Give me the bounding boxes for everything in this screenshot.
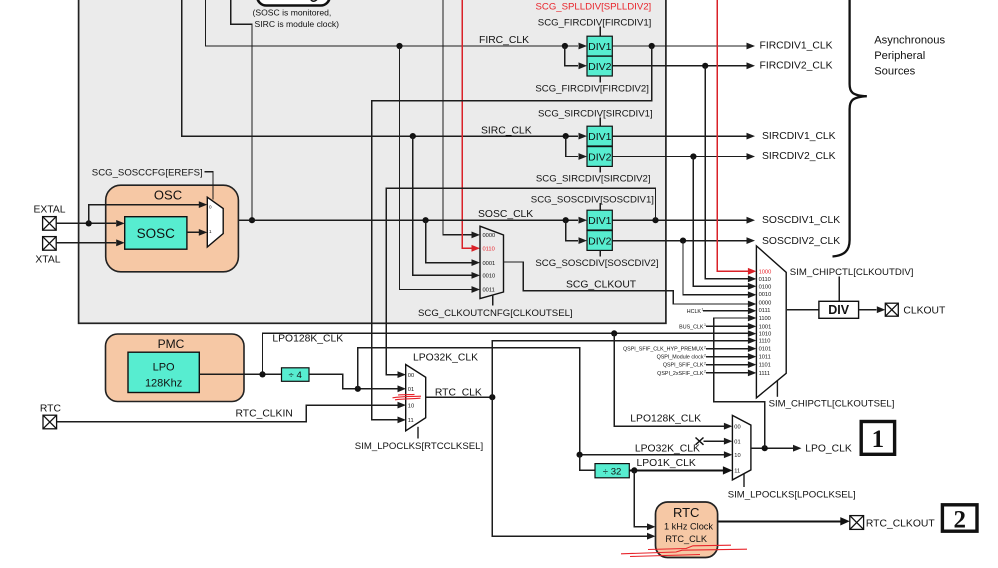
- wire RTC_CLKIN to RTC mux input 10: [57, 405, 398, 422]
- svg-text:RTC: RTC: [673, 505, 699, 520]
- RTC block: [656, 502, 718, 558]
- node: SIRC input branch to DIV2: [563, 133, 569, 139]
- wire SOSC_CLK row from OSC mux output: [223, 219, 578, 221]
- svg-text:2: 2: [953, 507, 966, 534]
- select line into DIV: [838, 277, 840, 302]
- select stub of SIM mux: [776, 381, 778, 397]
- svg-text:SCG_SIRCDIV[SIRCDIV1]: SCG_SIRCDIV[SIRCDIV1]: [538, 108, 653, 119]
- node LPO128K branch: [259, 371, 265, 377]
- LPO 128Khz block: [128, 352, 199, 392]
- CLKOUT pad: [885, 303, 898, 316]
- RTC_CLKOUT pad: [850, 516, 864, 530]
- wire RTC_CLK down to RTC block: [492, 397, 647, 536]
- svg-text:2: 2: [704, 345, 706, 349]
- svg-text:SCG_SOSCDIV[SOSCDIV1]: SCG_SOSCDIV[SOSCDIV1]: [531, 194, 654, 205]
- node LPO1K branch to RTC: [631, 467, 637, 473]
- svg-text:SIM_CHIPCTL[CLKOUTDIV]: SIM_CHIPCTL[CLKOUTDIV]: [790, 267, 914, 278]
- svg-text:LPO: LPO: [153, 362, 175, 374]
- svg-text:SIRCDIV2_CLK: SIRCDIV2_CLK: [762, 151, 836, 162]
- svg-text:0010: 0010: [759, 292, 772, 298]
- select stub of RTC mux: [417, 427, 419, 439]
- node LPO32K branch: [355, 386, 361, 392]
- numbered note box 1: [861, 422, 894, 455]
- node LPO_CLK loopback: [762, 445, 768, 451]
- divider SIRC DIV1: [587, 126, 612, 146]
- svg-text:10: 10: [408, 403, 414, 409]
- svg-text:1: 1: [209, 229, 212, 234]
- wire SIRCDIV2_CLK output: [612, 156, 746, 158]
- divider SOSC DIV2: [587, 231, 612, 251]
- SCG module block (large gray region): [79, 0, 666, 323]
- wire EXTAL to SOSC: [56, 222, 116, 224]
- svg-text:0010: 0010: [483, 274, 496, 280]
- svg-text:00: 00: [734, 424, 740, 430]
- svg-text:OSC: OSC: [154, 188, 182, 203]
- svg-text:1 kHz Clock: 1 kHz Clock: [664, 521, 713, 531]
- wire LPO128K_CLK up and right to SIM mux 1010: [263, 333, 748, 374]
- svg-text:2: 2: [704, 370, 706, 374]
- red wire: SCG_SPLLDIV SPLL clock from top into SCG CLKOUT mux input 0110: [462, 0, 472, 248]
- svg-text:FIRCDIV1_CLK: FIRCDIV1_CLK: [760, 40, 833, 51]
- svg-text:SIM_LPOCLKS[RTCCLKSEL]: SIM_LPOCLKS[RTCCLKSEL]: [355, 441, 483, 452]
- select stub of SCG mux: [492, 295, 494, 306]
- svg-text:÷ 32: ÷ 32: [603, 466, 622, 477]
- svg-text:0110: 0110: [483, 247, 495, 253]
- svg-text:XTAL: XTAL: [35, 254, 60, 265]
- svg-text:128Khz: 128Khz: [145, 378, 182, 390]
- svg-text:RTC_CLKOUT: RTC_CLKOUT: [866, 519, 935, 530]
- wire LPO32K_CLK up over to divider/LPO mux: [358, 348, 724, 455]
- svg-text:01: 01: [408, 387, 414, 393]
- svg-text:0011: 0011: [483, 288, 495, 294]
- select line SIRCDIV2: [599, 166, 601, 172]
- svg-text:0: 0: [209, 204, 212, 209]
- node: FIRC input branch to DIV2: [562, 43, 568, 49]
- svg-text:SOSCDIV2_CLK: SOSCDIV2_CLK: [762, 236, 840, 247]
- svg-text:0111: 0111: [759, 308, 771, 314]
- wire SOSC output to OSC mux input 1: [187, 231, 199, 233]
- wire LPO_CLK loop to SIM mux input 1100: [714, 318, 765, 448]
- svg-text:÷ 4: ÷ 4: [289, 370, 303, 381]
- wire div4 output to RTC clock mux input 01: [309, 374, 398, 388]
- wire: FIRCDIV1 to RTC clock mux input 11: [372, 46, 652, 420]
- svg-text:01: 01: [734, 439, 740, 445]
- svg-text:BUS_CLK: BUS_CLK: [679, 325, 704, 331]
- svg-text:PMC: PMC: [158, 337, 185, 351]
- wire RTC_CLK output: [426, 396, 493, 398]
- node LPO128K drop to LPO mux input 00: [611, 330, 617, 336]
- svg-text:SCG_FIRCDIV[FIRCDIV2]: SCG_FIRCDIV[FIRCDIV2]: [535, 84, 649, 95]
- wire: FIRC_CLK feed from top: [206, 0, 579, 46]
- svg-text:RTC: RTC: [40, 403, 62, 414]
- svg-text:1101: 1101: [759, 363, 771, 369]
- svg-text:RTC_CLK: RTC_CLK: [435, 387, 482, 398]
- wire LPO1K_CLK to LPO mux input 11 (bold): [629, 469, 723, 471]
- svg-text:2: 2: [704, 361, 706, 365]
- node: SIRCDIV2 tap to SIM CLKOUT mux 0100: [690, 153, 696, 159]
- numbered note box 2: [942, 505, 977, 531]
- red scribbles under RTC block: [621, 545, 747, 556]
- svg-text:1100: 1100: [759, 316, 771, 322]
- select line SIRCDIV1: [599, 117, 601, 126]
- svg-text:0000: 0000: [483, 233, 496, 239]
- wire RTC block to RTC_CLKOUT pad (bold): [718, 520, 841, 522]
- svg-text:1: 1: [702, 308, 704, 312]
- svg-text:CLKOUT: CLKOUT: [903, 305, 946, 316]
- svg-text:1110: 1110: [759, 339, 771, 345]
- node: FIRC tap to SCG mux 0011: [396, 43, 402, 49]
- node EXTAL branch: [86, 220, 92, 226]
- svg-text:DIV2: DIV2: [588, 236, 612, 248]
- svg-text:SIRCDIV1_CLK: SIRCDIV1_CLK: [762, 131, 836, 142]
- X mark: no clock on LPO mux input 01: [696, 438, 704, 445]
- svg-text:(SOSC is monitored,: (SOSC is monitored,: [253, 8, 332, 18]
- wire SOSCDIV1_CLK output: [612, 219, 746, 221]
- wire XTAL to SOSC: [56, 242, 116, 244]
- svg-text:SOSC_CLK: SOSC_CLK: [478, 209, 533, 220]
- node: SOSC input branch to DIV2: [563, 217, 569, 223]
- node: FIRCDIV1 tap for RTC mux input 11: [649, 43, 655, 49]
- svg-text:0110: 0110: [759, 277, 771, 283]
- svg-text:DIV1: DIV1: [588, 131, 612, 143]
- wire RTC_CLK up to SIM mux input 1110: [492, 341, 748, 397]
- svg-text:QSPI_Module clock: QSPI_Module clock: [657, 355, 704, 361]
- divide-by-32 block: [595, 464, 629, 478]
- svg-text:0001: 0001: [483, 261, 496, 267]
- wire from X mark to LPO mux input 01: [704, 440, 724, 442]
- svg-text:DIV1: DIV1: [588, 41, 612, 53]
- svg-text:0100: 0100: [759, 284, 772, 290]
- svg-text:RTC_CLK: RTC_CLK: [665, 534, 708, 544]
- svg-text:SIRC is module clock): SIRC is module clock): [255, 19, 340, 29]
- svg-text:1111: 1111: [759, 371, 770, 377]
- divider SIRC DIV2: [587, 147, 612, 167]
- node RTC_CLK branch: [489, 394, 495, 400]
- divider FIRC DIV2: [587, 56, 612, 76]
- svg-text:1010: 1010: [759, 332, 772, 338]
- wire SCG_CLKOUT from mux to SIM mux input 0000: [504, 262, 748, 304]
- svg-text:SCG_CLKOUT: SCG_CLKOUT: [566, 279, 637, 290]
- select line SOSCDIV1: [599, 203, 601, 210]
- junction on SOSC_CLK row (monitor tap): [249, 217, 255, 223]
- svg-text:00: 00: [408, 373, 414, 379]
- SOSC block: [125, 217, 187, 250]
- select line FIRCDIV2: [599, 76, 601, 83]
- svg-text:DIV2: DIV2: [588, 152, 612, 164]
- svg-text:LPO128K_CLK: LPO128K_CLK: [630, 413, 701, 424]
- RTC clock mux SIM_LPOCLKS[RTCCLKSEL]: [406, 365, 426, 431]
- select line FIRCDIV1: [599, 27, 601, 37]
- wire DIV to CLKOUT pad: [859, 309, 877, 311]
- svg-text:QSPI_SFIF_CLK: QSPI_SFIF_CLK: [663, 363, 704, 369]
- svg-text:FIRCDIV2_CLK: FIRCDIV2_CLK: [760, 60, 833, 71]
- wire HCLK input: [703, 310, 748, 312]
- wire FIRCDIV2_CLK output: [612, 65, 746, 67]
- QSPI clock inputs to SIM mux: [706, 348, 748, 350]
- PMC block: [106, 334, 245, 402]
- wire LPO output: [199, 373, 281, 375]
- wire: SIRC module-clock line from monitor into SIRC_CLK row: [182, 0, 578, 136]
- svg-text:SOSCDIV1_CLK: SOSCDIV1_CLK: [762, 215, 840, 226]
- svg-text:SIRC_CLK: SIRC_CLK: [481, 125, 532, 136]
- wire SOSCDIV2_CLK output: [612, 240, 746, 242]
- svg-text:LPO32K_CLK: LPO32K_CLK: [413, 352, 478, 363]
- node: SOSCDIV1 tap to RTC clock mux input 00: [652, 217, 658, 223]
- svg-text:SCG_SOSCCFG[EREFS]: SCG_SOSCCFG[EREFS]: [92, 167, 203, 178]
- svg-text:HCLK: HCLK: [687, 309, 702, 315]
- divide-by-4 block: [282, 368, 310, 382]
- EREFS select line: [205, 172, 214, 200]
- svg-text:QSPI_2xSFIF_CLK: QSPI_2xSFIF_CLK: [657, 371, 704, 377]
- svg-text:11: 11: [734, 469, 740, 475]
- svg-text:DIV: DIV: [828, 303, 850, 317]
- svg-text:Asynchronous: Asynchronous: [874, 35, 945, 47]
- wire FIRCDIV1_CLK output: [612, 45, 746, 47]
- svg-text:1: 1: [872, 426, 885, 453]
- node LPO32K drop to div32: [577, 452, 583, 458]
- brace: asynchronous peripheral sources: [833, 0, 867, 257]
- svg-text:SOSC: SOSC: [137, 226, 176, 241]
- red scribble over RTC mux input 01: [393, 394, 422, 399]
- wire: SOSC monitor tap (jog) down to SOSC_CLK row: [231, 0, 252, 220]
- svg-text:LPO128K_CLK: LPO128K_CLK: [272, 334, 343, 345]
- red wire: SPLL clock from top into SIM CLKOUT mux input 1000: [717, 0, 748, 271]
- SIM chip clockout mux SIM_CHIPCTL[CLKOUTSEL]: [756, 246, 786, 398]
- svg-text:FIRC_CLK: FIRC_CLK: [479, 35, 529, 46]
- wire BUS_CLK input: [706, 325, 748, 327]
- wire LPO_CLK output: [751, 447, 793, 449]
- LPO clock mux SIM_LPOCLKS[LPOCLKSEL]: [732, 415, 751, 480]
- svg-text:SCG_SPLLDIV[SPLLDIV2]: SCG_SPLLDIV[SPLLDIV2]: [536, 2, 652, 13]
- clock monitor unit box (cut off at top edge): [257, 0, 330, 6]
- node: SOSCDIV2 tap to SIM CLKOUT mux 0010: [680, 238, 686, 244]
- wire: SLOW/other clock from top into SCG CLKOUT mux input 0000: [443, 0, 472, 235]
- svg-text:SIM_LPOCLKS[LPOCLKSEL]: SIM_LPOCLKS[LPOCLKSEL]: [728, 490, 856, 501]
- svg-text:1001: 1001: [759, 324, 772, 330]
- svg-text:SCG_SOSCDIV[SOSCDIV2]: SCG_SOSCDIV[SOSCDIV2]: [535, 258, 658, 269]
- svg-text:11: 11: [408, 418, 414, 424]
- svg-text:10: 10: [734, 453, 740, 459]
- SCG clockout mux SCG_CLKOUTCNFG: [480, 226, 504, 298]
- divider DIV (CLKOUT): [819, 301, 859, 318]
- svg-text:SCG_FIRCDIV[FIRCDIV1]: SCG_FIRCDIV[FIRCDIV1]: [538, 18, 652, 29]
- wire SIRCDIV1_CLK output: [612, 135, 746, 137]
- svg-text:2: 2: [704, 353, 706, 357]
- svg-text:0101: 0101: [759, 347, 772, 353]
- svg-text:LPO32K_CLK: LPO32K_CLK: [635, 443, 700, 454]
- select stub of LPO mux: [743, 474, 745, 488]
- svg-text:Sources: Sources: [874, 66, 915, 78]
- node: SOSC tap to SCG mux 0001: [423, 217, 429, 223]
- select line SOSCDIV2: [599, 250, 601, 256]
- svg-text:LPO_CLK: LPO_CLK: [805, 444, 852, 455]
- svg-text:Peripheral: Peripheral: [874, 50, 925, 62]
- wire EXTAL bypass to OSC mux input 0: [89, 205, 199, 224]
- svg-text:SIM_CHIPCTL[CLKOUTSEL]: SIM_CHIPCTL[CLKOUTSEL]: [769, 399, 895, 410]
- svg-text:SCG_CLKOUTCNFG[CLKOUTSEL]: SCG_CLKOUTCNFG[CLKOUTSEL]: [418, 308, 573, 319]
- svg-text:SCG_SIRCDIV[SIRCDIV2]: SCG_SIRCDIV[SIRCDIV2]: [536, 174, 651, 185]
- node: FIRCDIV2 tap to SIM CLKOUT mux 0110: [702, 63, 708, 69]
- wire SIM mux output to DIV: [787, 309, 819, 311]
- svg-text:DIV2: DIV2: [588, 61, 612, 73]
- divider SOSC DIV1: [587, 210, 612, 230]
- node: SIRC tap to SCG mux 0010: [410, 133, 416, 139]
- svg-text:1011: 1011: [759, 355, 771, 361]
- OSC block: [106, 185, 239, 272]
- svg-text:DIV1: DIV1: [588, 215, 612, 227]
- curved wire stub at monitor box right: [311, 0, 318, 1]
- svg-text:EXTAL: EXTAL: [34, 204, 66, 215]
- svg-text:RTC_CLKIN: RTC_CLKIN: [236, 409, 293, 420]
- svg-text:LPO1K_CLK: LPO1K_CLK: [637, 458, 696, 469]
- svg-text:0000: 0000: [759, 301, 772, 307]
- svg-text:QSPI_SFIF_CLK_HYP_PREMUX: QSPI_SFIF_CLK_HYP_PREMUX: [623, 347, 704, 353]
- svg-text:1: 1: [704, 323, 706, 327]
- OSC bypass mux: [207, 197, 223, 247]
- svg-text:1000: 1000: [759, 269, 772, 275]
- divider FIRC DIV1: [587, 36, 612, 56]
